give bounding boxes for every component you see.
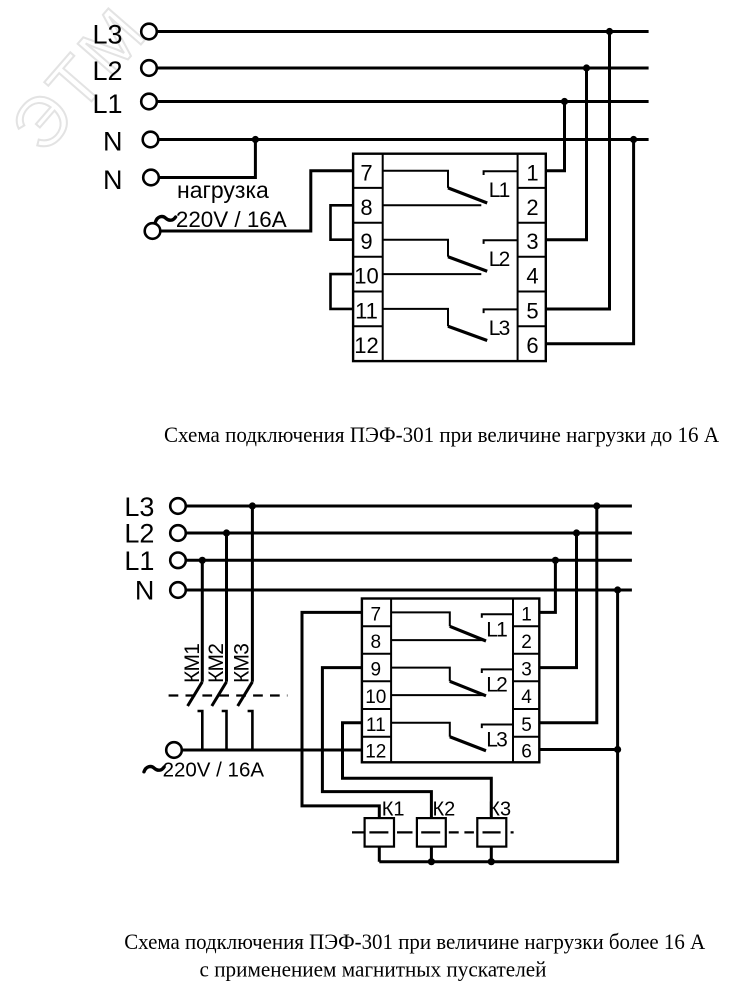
svg-text:К2: К2 [433,798,456,820]
svg-text:9: 9 [360,229,372,254]
svg-text:L2: L2 [486,674,508,697]
svg-text:1: 1 [521,604,532,625]
svg-text:L1: L1 [92,89,122,119]
svg-text:7: 7 [371,604,382,625]
svg-text:L2: L2 [489,248,511,271]
svg-text:12: 12 [365,742,386,763]
svg-text:L1: L1 [489,179,511,202]
svg-text:с применением магнитных пускат: с применением магнитных пускателей [200,956,547,981]
svg-text:1: 1 [526,160,538,185]
svg-text:L1: L1 [124,546,154,576]
svg-text:L3: L3 [92,19,122,49]
svg-text:2: 2 [521,632,532,653]
svg-text:Схема подключения ПЭФ-301 при: Схема подключения ПЭФ-301 при величине н… [124,929,705,954]
svg-text:КМ2: КМ2 [205,643,228,683]
svg-text:5: 5 [526,298,538,323]
svg-text:6: 6 [526,333,538,358]
svg-text:8: 8 [371,632,382,653]
svg-text:КМ3: КМ3 [231,643,254,683]
svg-text:нагрузка: нагрузка [177,177,269,203]
svg-text:L2: L2 [124,519,154,549]
svg-text:7: 7 [360,160,372,185]
svg-text:К3: К3 [488,798,511,820]
svg-text:ЭТМ: ЭТМ [0,0,163,166]
svg-text:6: 6 [521,742,532,763]
svg-text:3: 3 [521,660,532,681]
svg-text:L3: L3 [486,729,508,752]
svg-text:Схема подключения ПЭФ-301 при: Схема подключения ПЭФ-301 при величине н… [164,422,719,447]
svg-text:10: 10 [354,264,378,289]
svg-text:L3: L3 [489,317,511,340]
svg-text:L3: L3 [124,492,154,522]
svg-text:2: 2 [526,195,538,220]
svg-text:9: 9 [371,660,382,681]
svg-text:12: 12 [354,333,378,358]
svg-text:5: 5 [521,715,532,736]
svg-text:220V / 16A: 220V / 16A [163,759,265,782]
svg-text:8: 8 [360,195,372,220]
svg-text:N: N [103,127,123,157]
svg-text:К1: К1 [382,798,405,820]
svg-text:220V / 16A: 220V / 16A [176,207,287,232]
svg-text:4: 4 [521,687,532,708]
svg-text:3: 3 [526,229,538,254]
svg-text:4: 4 [526,264,538,289]
svg-text:11: 11 [355,298,378,323]
svg-text:L1: L1 [486,618,508,641]
svg-text:L2: L2 [92,56,122,86]
svg-text:11: 11 [366,715,386,736]
svg-text:N: N [103,165,123,195]
svg-text:N: N [135,576,155,606]
svg-text:10: 10 [365,687,386,708]
svg-text:КМ1: КМ1 [181,643,204,683]
